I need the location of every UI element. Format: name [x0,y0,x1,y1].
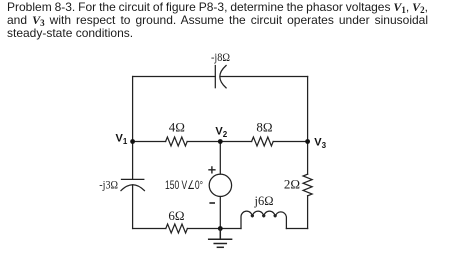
svg-text:8Ω: 8Ω [256,120,272,135]
inductor j6 ohm [241,211,286,228]
capacitor -j3 ohm: curved bottom plate [121,185,144,191]
capacitor -j8 ohm top: curved right plate [220,66,226,88]
svg-text:V3: V3 [314,137,326,151]
node ground dot [218,226,223,231]
wire middle row: 4ohm to V2 [187,141,251,143]
svg-text:6Ω: 6Ω [168,208,184,223]
wire right rail lower [307,196,309,229]
wire bottom rail: 6ohm to ground node [187,228,220,230]
wire bottom rail: ground node to inductor [220,228,241,230]
svg-text:150 V∠0°: 150 V∠0° [165,178,203,192]
wire left rail lower [132,185,134,229]
svg-text:j6Ω: j6Ω [253,194,273,208]
source plus sign [209,167,215,173]
wire middle row: 8ohm to V3 [273,141,307,143]
wire bottom rail: left corner to 6ohm [133,228,166,230]
svg-text:-j3Ω: -j3Ω [99,179,118,192]
capacitor -j3 ohm: straight top plate [122,178,144,180]
node V1 dot [130,139,135,144]
svg-text:2Ω: 2Ω [284,177,300,192]
wire right rail upper [307,77,309,175]
node V2 dot [218,139,223,144]
wire left rail upper [132,77,134,180]
svg-text:4Ω: 4Ω [169,120,185,135]
resistor 2 ohm vertical [303,174,312,196]
svg-text:V2: V2 [215,126,227,140]
wire middle vertical: V2 to source [219,142,221,175]
resistor 6 ohm [166,224,188,233]
wire top rail left segment [133,76,216,78]
svg-text:-j8Ω: -j8Ω [211,51,230,64]
wire top rail right segment [221,76,308,78]
ground symbol [209,229,232,248]
source minus sign [210,202,214,204]
wire middle row: V1 to 4ohm [133,141,166,143]
resistor 8 ohm [252,137,274,146]
node V3 dot [305,139,310,144]
wire bottom rail: inductor to right corner [286,228,307,230]
svg-text:V1: V1 [116,133,128,147]
wire middle vertical: source to bottom node [219,197,221,229]
capacitor -j8 ohm top: straight left plate [214,66,216,88]
resistor 4 ohm [166,137,188,146]
source circle 150V [209,174,231,196]
